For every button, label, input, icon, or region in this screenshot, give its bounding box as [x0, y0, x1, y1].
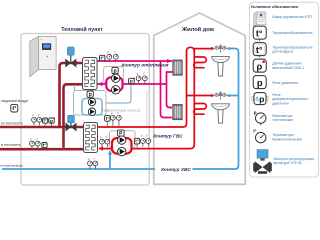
svg-text:t°: t° [256, 28, 263, 38]
svg-text:Жилой дом: Жилой дом [181, 26, 214, 33]
svg-text:Условные обозначения: Условные обозначения [251, 4, 299, 9]
svg-text:Тепловой пункт: Тепловой пункт [61, 26, 103, 33]
svg-text:t°: t° [94, 157, 96, 161]
svg-text:Контур отопления: Контур отопления [122, 62, 169, 68]
svg-text:p: p [259, 94, 264, 104]
svg-text:Реле давления: Реле давления [272, 81, 298, 85]
svg-text:из теплосети: из теплосети [1, 121, 23, 125]
svg-text:t°: t° [146, 134, 148, 138]
svg-text:ПОДПИТОЧНЫЕ НАСОСЫ: ПОДПИТОЧНЫЕ НАСОСЫ [103, 109, 141, 113]
svg-text:ρ: ρ [256, 61, 262, 72]
svg-text:Контур ХВС: Контур ХВС [161, 167, 191, 173]
svg-text:t°: t° [38, 113, 40, 117]
svg-text:p: p [254, 110, 257, 115]
svg-text:t°: t° [135, 139, 139, 144]
svg-text:p: p [50, 119, 53, 124]
svg-text:давления: давления [272, 102, 288, 106]
svg-text:технические: технические [272, 118, 293, 122]
svg-text:Шкаф управления ИТП: Шкаф управления ИТП [272, 15, 312, 19]
svg-text:t°: t° [114, 50, 116, 54]
svg-text:для воздуха: для воздуха [272, 50, 294, 54]
svg-text:t°: t° [106, 135, 108, 139]
svg-text:наружный воздух: наружный воздух [1, 99, 29, 103]
svg-text:p: p [113, 68, 116, 74]
svg-text:аналоговый СВК-1: аналоговый СВК-1 [272, 66, 304, 70]
svg-text:t°: t° [43, 118, 47, 123]
svg-text:Термопреобразователь: Термопреобразователь [272, 31, 312, 35]
svg-text:t°: t° [43, 143, 47, 148]
svg-text:t°: t° [253, 129, 256, 134]
svg-text:в теплосеть: в теплосеть [1, 143, 21, 147]
svg-text:p: p [257, 77, 263, 88]
svg-text:Контур ГВС: Контур ГВС [153, 134, 183, 140]
svg-text:арматура VYF45: арматура VYF45 [273, 161, 302, 165]
svg-text:биметаллические: биметаллические [272, 137, 302, 141]
svg-text:t°: t° [106, 116, 110, 121]
svg-text:p: p [89, 92, 92, 98]
svg-text:t°: t° [101, 56, 105, 61]
svg-text:из водопровода: из водопровода [1, 163, 23, 167]
svg-text:t°: t° [36, 137, 38, 141]
svg-text:t°: t° [143, 72, 145, 76]
svg-text:p: p [130, 80, 133, 85]
svg-text:t°: t° [12, 106, 16, 112]
svg-text:t°: t° [256, 45, 263, 55]
